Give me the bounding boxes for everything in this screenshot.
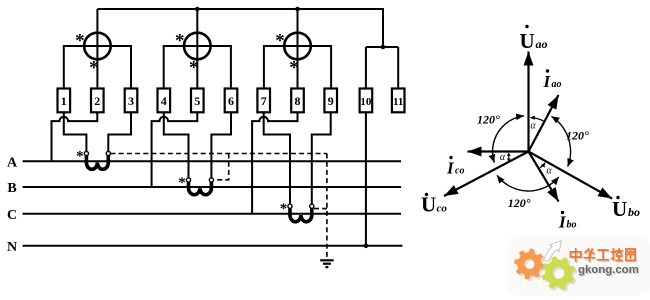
phasor vector Ubo [529,152,613,199]
svg-text:bo: bo [628,205,640,219]
svg-text:1: 1 [61,94,67,108]
svg-text:N: N [7,240,17,255]
dashed wire: CT3 k2 branch [314,208,327,210]
phasor vector Uao [527,52,529,152]
junction dot on bus (element 3 tap) [295,7,300,12]
terminal box 9 [324,89,337,113]
terminal box 8 [291,89,304,113]
svg-text:10: 10 [360,96,372,108]
wire terminal 4 to CT2 star terminal [164,112,189,178]
svg-text:α: α [500,152,506,163]
junction dot on bus (element 2 tap) [195,7,200,12]
meter element W3 vertical wire [297,9,299,89]
svg-text:*: * [76,149,84,165]
svg-text:8: 8 [295,94,301,108]
top bus wire [97,9,398,89]
label Uco [421,193,447,217]
120 deg arc between Uco and Ubo [497,175,559,191]
terminal box 4 [158,89,171,113]
label Ico [446,156,464,178]
svg-text:5: 5 [194,94,200,108]
120 deg arc between Uao and Uco [493,116,525,163]
svg-text:120°: 120° [508,196,531,210]
logo text: Chinese characters (drawn) [571,249,636,261]
svg-text:120°: 120° [566,129,589,143]
logo background [508,236,650,296]
CT1 terminal k1 (circle) [84,151,88,155]
svg-text:A: A [7,155,18,170]
terminal box 10 [360,89,373,113]
svg-text:ao: ao [536,37,548,51]
terminal box 3 [125,89,138,113]
svg-text:co: co [455,166,464,177]
svg-text:*: * [75,31,85,52]
wire terminal 7 to CT3 star terminal [264,112,290,204]
terminal box 11 [392,89,405,113]
svg-text:3: 3 [128,94,134,108]
svg-text:ao: ao [552,79,562,90]
phase line N [23,245,403,247]
label Iao [543,69,562,91]
svg-text:6: 6 [228,94,234,108]
current transformer CT1 secondary winding [86,155,108,169]
dashed wire: earth run down to ground [326,154,328,260]
meter element W2 horizontal wire and drops [164,46,231,89]
wire terminal 10 to neutral line [365,112,367,246]
svg-text:C: C [7,208,17,223]
svg-text:U: U [421,193,436,217]
meter element W2 coil circle [184,33,211,60]
svg-text:*: * [89,58,99,79]
phasor vector Ibo [529,152,559,202]
svg-text:9: 9 [328,94,334,108]
svg-text:7: 7 [261,94,267,108]
svg-text:4: 4 [161,94,167,108]
svg-text:U: U [612,197,627,221]
svg-text:B: B [7,181,16,196]
svg-text:*: * [275,31,285,52]
ground symbol [320,260,333,267]
dashed wire: CT1 k2 to common earth run [111,153,327,155]
meter element W2 vertical wire [196,9,198,89]
120 deg arc between Uao and Ubo [551,116,570,166]
wire terminal 6 to CT2 second terminal [211,112,231,178]
logo gear shadows [516,251,547,282]
svg-text:α: α [530,121,536,132]
terminal box 2 [91,89,104,113]
svg-text:co: co [437,203,448,215]
terminal box 6 [225,89,238,113]
phasor vector Ico [468,150,529,152]
current transformer CT3 secondary winding [290,208,312,222]
svg-text:2: 2 [94,94,100,108]
junction dot at voltage terminals branch [381,45,386,50]
wire terminal 2 voltage tap to phase line (with crossover hop) [52,112,98,161]
label Ubo [612,196,640,221]
meter element W1 vertical wire [96,9,98,89]
label Ibo [558,211,577,232]
phase line C [23,213,401,215]
logo text: Chinese characters (drawn) shadow [572,250,637,262]
current transformer CT2 secondary winding [189,182,212,195]
meter element W1 horizontal wire and drops [64,46,131,89]
wire terminal 9 to CT3 second terminal [312,112,331,204]
svg-text:α: α [546,166,552,177]
wire terminal 5 voltage tap to phase line (with crossover hop) [152,112,198,187]
CT2 terminal k2 (circle) [209,178,213,182]
svg-text:U: U [520,29,535,53]
phase line A [23,160,401,162]
logo arrow [544,241,562,262]
CT1 terminal k2 (circle) [106,151,110,155]
terminal box 5 [191,89,204,113]
terminal box 7 [257,89,270,113]
small alpha arc between Iao and Uao [530,118,543,121]
meter element W1 coil circle [84,33,111,60]
svg-text:*: * [189,58,199,79]
CT2 terminal k1 (circle) [186,178,190,182]
svg-text:gkong.com: gkong.com [578,264,639,276]
small alpha arc between Ibo and Ubo [540,163,545,168]
wire terminal 3 to CT1 second terminal [108,112,131,151]
svg-text:*: * [178,175,186,191]
wire terminal 8 voltage tap to phase line (with crossover hop) [252,112,297,214]
svg-text:*: * [175,31,185,52]
svg-text:11: 11 [393,96,403,108]
logo gear green [542,256,576,290]
svg-text:bo: bo [567,220,577,231]
phasor vector Iao [529,95,559,152]
svg-text:*: * [280,201,288,217]
CT3 terminal k2 (circle) [310,204,314,208]
small alpha double arrow between Ico and Uco [507,153,511,162]
label Uao [520,25,548,53]
dashed wire: CT2 k2 branch [214,154,229,180]
svg-text:*: * [289,58,299,79]
meter element W3 coil circle [284,33,311,60]
phase line B [23,186,401,188]
terminal box 1 [58,89,71,113]
wire terminal 1 to CT1 star terminal [64,112,87,151]
svg-text:120°: 120° [477,113,500,127]
phasor vector Uco [444,152,529,197]
logo gear orange [514,249,545,280]
CT3 terminal k1 (circle) [288,204,292,208]
meter element W3 horizontal wire and drops [264,46,331,89]
junction dot on neutral [364,244,369,249]
